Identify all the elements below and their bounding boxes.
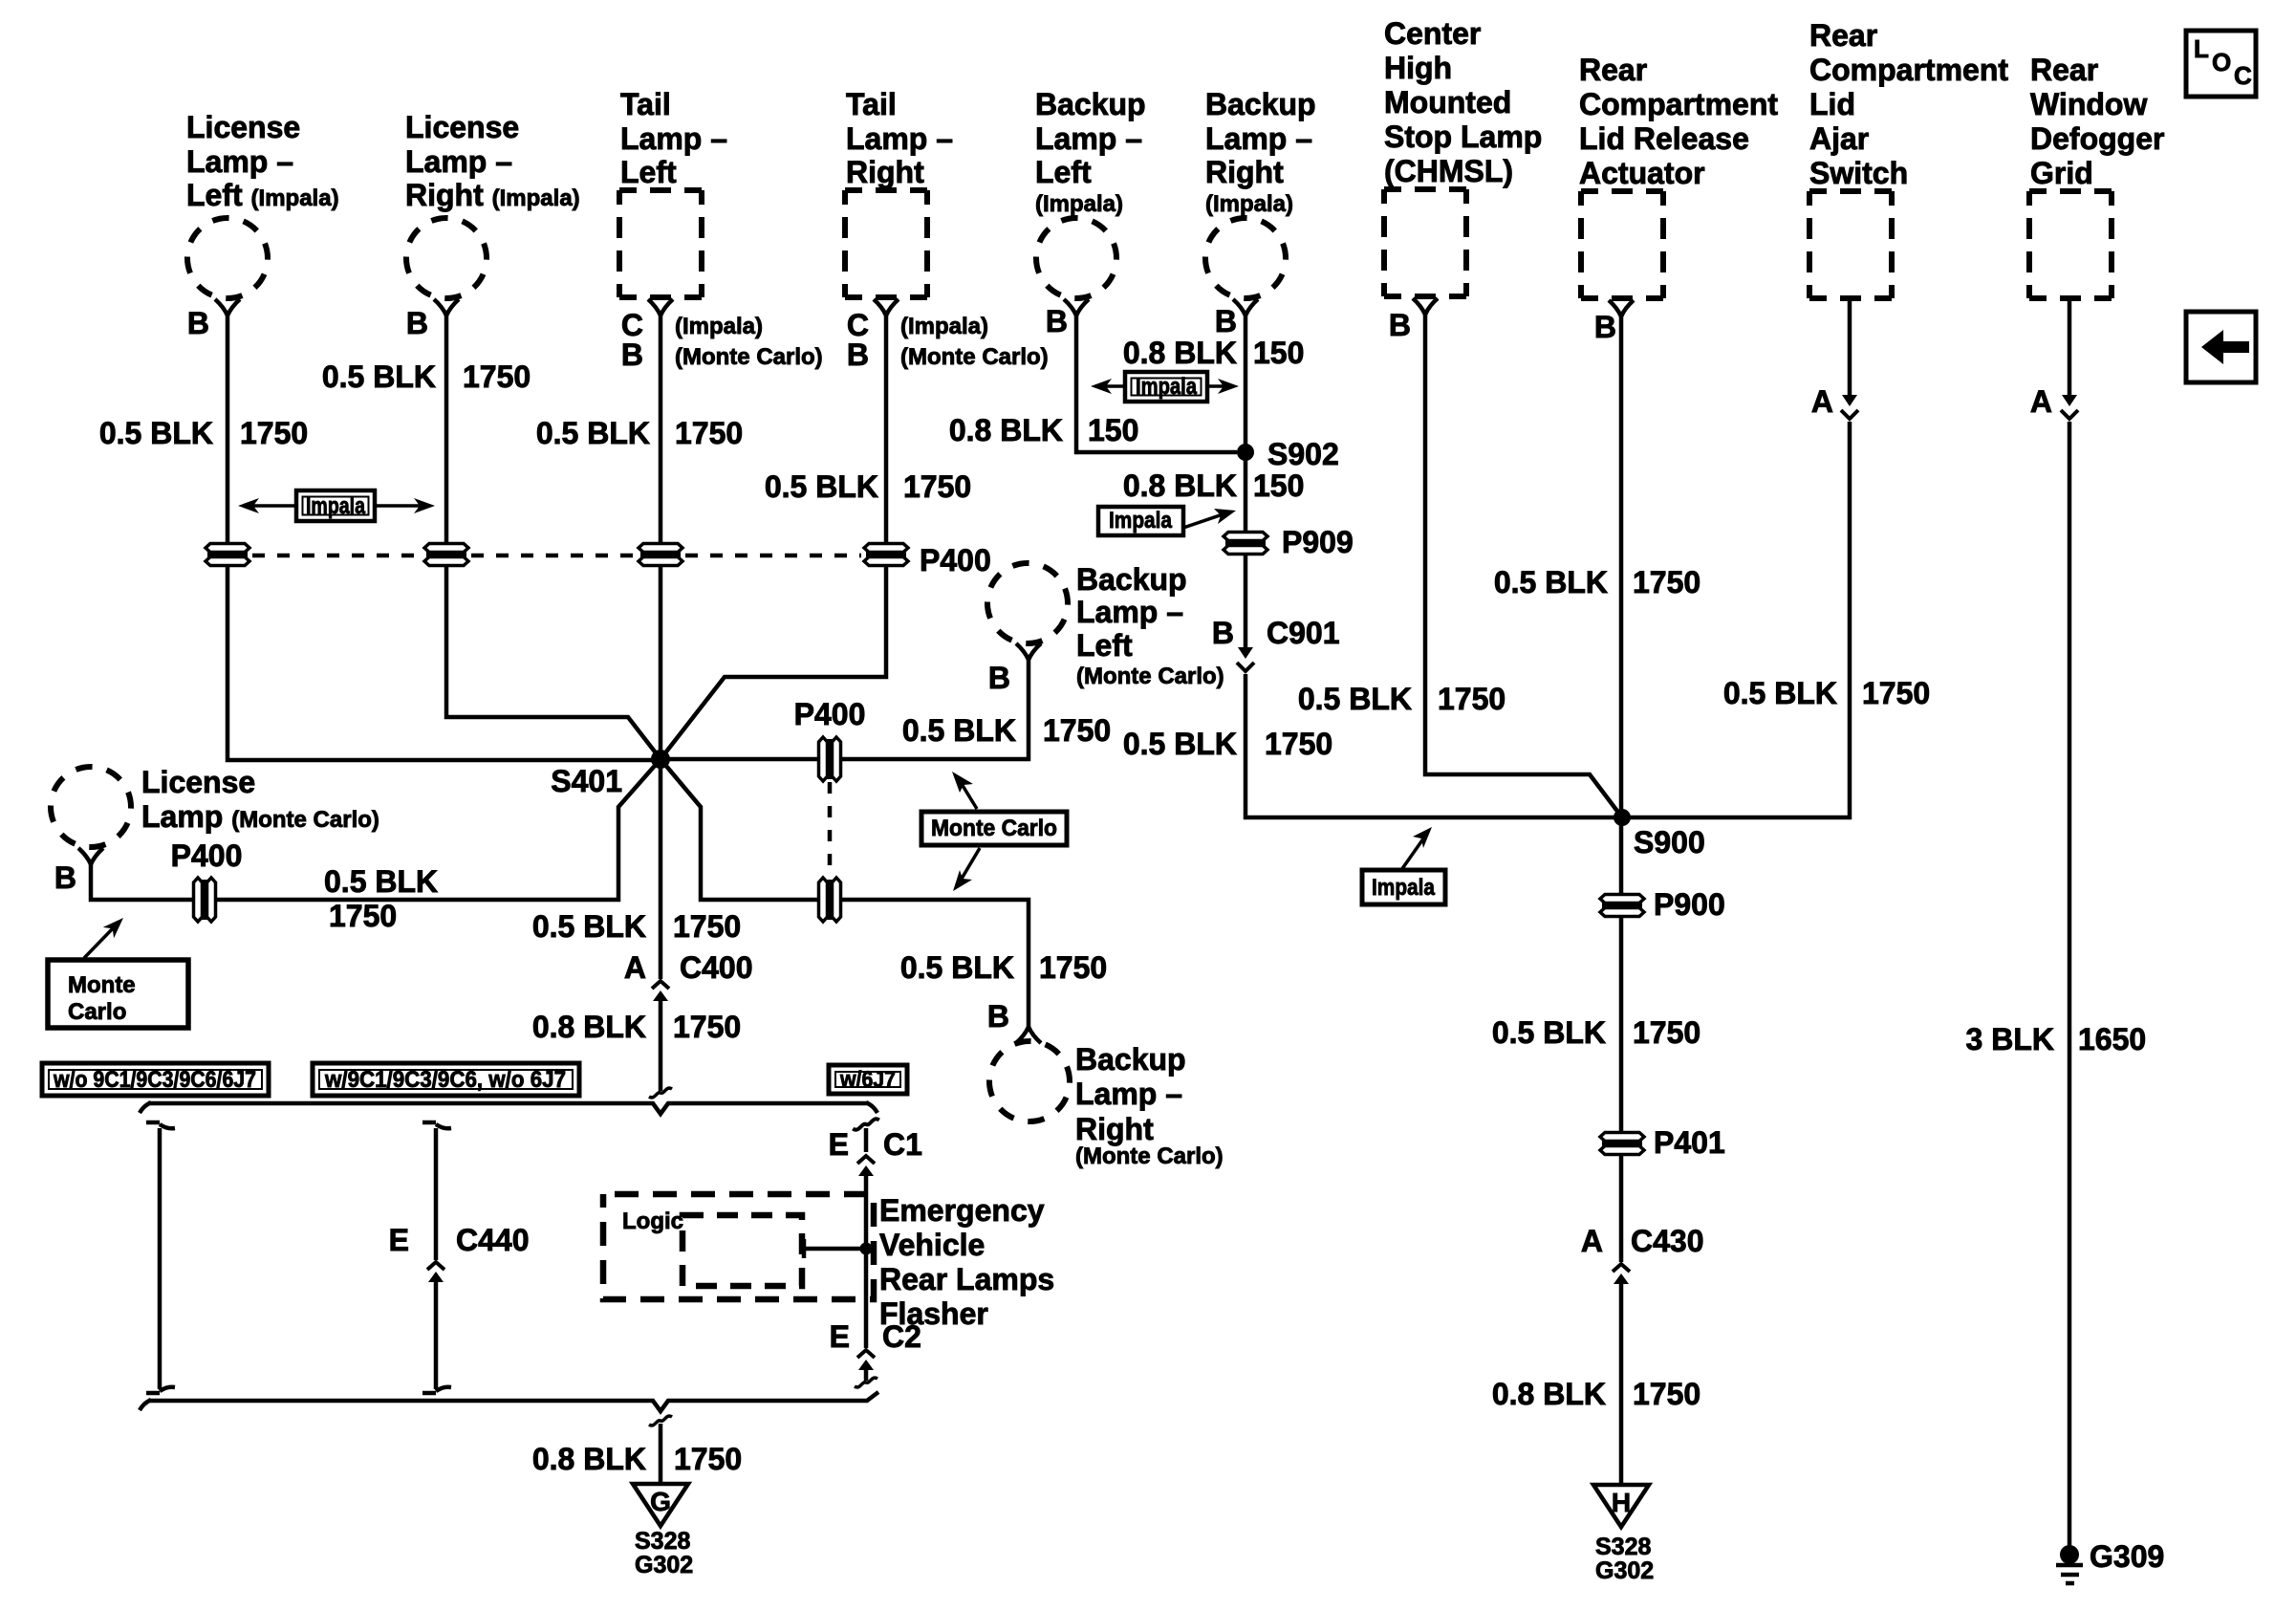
svg-text:E: E (389, 1223, 409, 1257)
svg-text:Right: Right (1205, 155, 1284, 189)
svg-text:Left: Left (620, 155, 677, 189)
dashed pass-through line P400 (252, 554, 861, 558)
svg-text:0.8 BLK: 0.8 BLK (949, 413, 1063, 447)
svg-text:Lamp –: Lamp – (1075, 1077, 1182, 1111)
connector C2 inline symbol (857, 1350, 875, 1370)
svg-text:C430: C430 (1631, 1224, 1704, 1258)
svg-text:Compartment: Compartment (1579, 87, 1778, 121)
wire break squiggle above option span (649, 1088, 672, 1098)
wire Lid Ajar Switch to S900 0.5 BLK 1750 (1626, 422, 1850, 817)
svg-text:Lamp –: Lamp – (186, 144, 293, 179)
svg-text:1750: 1750 (240, 416, 308, 450)
svg-text:1750: 1750 (675, 416, 743, 450)
label 0.5 BLK 1750 (License Right) (322, 359, 531, 394)
svg-text:Vehicle: Vehicle (879, 1228, 985, 1262)
svg-text:B: B (1046, 304, 1068, 338)
svg-text:Stop Lamp: Stop Lamp (1384, 120, 1542, 154)
svg-text:0.5 BLK: 0.5 BLK (99, 416, 213, 450)
svg-text:Lamp –: Lamp – (1076, 595, 1183, 629)
svg-text:0.5 BLK: 0.5 BLK (765, 469, 878, 504)
grommet P401 (1600, 1133, 1644, 1155)
svg-text:0.5 BLK: 0.5 BLK (1298, 682, 1412, 716)
svg-text:B: B (1389, 308, 1411, 342)
label 0.5 BLK 1750 (Tail Left) (536, 416, 743, 450)
label 0.8 BLK 1750 (C430 lower) (1492, 1377, 1700, 1411)
grommet P909 (1224, 533, 1267, 555)
label 0.5 BLK 1750 (Ajar) (1723, 676, 1930, 710)
svg-text:B: B (187, 306, 209, 340)
svg-text:Backup: Backup (1205, 87, 1316, 121)
grommet P400 (lower Monte Carlo run) (819, 878, 841, 922)
svg-text:Backup: Backup (1075, 1042, 1186, 1077)
dashed link between P400 grommets (828, 782, 833, 877)
svg-text:1750: 1750 (1265, 727, 1332, 761)
label 0.5 BLK 1750 (CHMSL) (1298, 682, 1505, 716)
svg-text:Rear: Rear (1809, 18, 1877, 53)
svg-text:0.5 BLK: 0.5 BLK (900, 950, 1014, 985)
svg-text:Carlo: Carlo (68, 999, 126, 1025)
svg-text:(Monte Carlo): (Monte Carlo) (675, 344, 823, 370)
svg-text:0.8 BLK: 0.8 BLK (532, 1010, 646, 1044)
svg-text:0.8 BLK: 0.8 BLK (1492, 1377, 1606, 1411)
connector C1 inline symbol (857, 1156, 875, 1176)
svg-text:C1: C1 (883, 1127, 922, 1162)
svg-text:Lamp –: Lamp – (1205, 121, 1312, 156)
svg-text:Rear: Rear (1579, 53, 1647, 87)
svg-text:S328: S328 (635, 1528, 690, 1555)
wire Defogger Grid to G309 3 BLK 1650 (2068, 422, 2072, 1549)
svg-text:Lamp –: Lamp – (846, 121, 953, 156)
svg-text:150: 150 (1088, 413, 1138, 447)
pin A marker on Defogger wire (2061, 395, 2078, 419)
label 0.5 BLK / 1750 (Monte Carlo license) (324, 864, 438, 933)
svg-text:0.5 BLK: 0.5 BLK (324, 864, 438, 899)
svg-text:B: B (1215, 304, 1237, 338)
option box w/9C1/9C3/9C6, w/o 6J7 (313, 1063, 579, 1096)
component Backup Lamp Left (Impala) (1024, 87, 1146, 316)
svg-text:Defogger: Defogger (2030, 121, 2164, 156)
connector C430 inline symbol (1613, 1264, 1630, 1284)
option span line upper (140, 1102, 877, 1114)
wire S401 lower-right to Backup Lamp Right (Monte Carlo) (661, 759, 1029, 1027)
LOC legend box (2186, 31, 2256, 97)
svg-text:O: O (2212, 48, 2231, 76)
option box w/6J7 (829, 1065, 907, 1094)
svg-text:Tail: Tail (846, 87, 897, 121)
svg-text:Impala: Impala (1372, 875, 1436, 901)
label Emergency Vehicle Rear Lamps Flasher (879, 1193, 1054, 1331)
svg-text:Right: Right (1075, 1112, 1154, 1146)
svg-text:Lid Release: Lid Release (1579, 121, 1749, 156)
svg-text:w/o 9C1/9C3/9C6/6J7: w/o 9C1/9C3/9C6/6J7 (53, 1067, 256, 1093)
svg-text:Compartment: Compartment (1809, 53, 2008, 87)
svg-text:B: B (406, 306, 428, 340)
svg-text:(Impala): (Impala) (675, 314, 763, 339)
Impala option box with arrow (S900) (1362, 827, 1445, 904)
grommet P400 (upper Monte Carlo run) (819, 737, 841, 781)
svg-text:1750: 1750 (673, 1010, 741, 1044)
svg-text:E: E (829, 1127, 849, 1162)
svg-text:B: B (847, 337, 869, 372)
svg-text:(Monte Carlo): (Monte Carlo) (900, 344, 1049, 370)
svg-text:S900: S900 (1634, 825, 1705, 860)
svg-text:w/6J7: w/6J7 (839, 1067, 896, 1093)
svg-text:1750: 1750 (1862, 676, 1930, 710)
grommet P400 on License Right wire (424, 544, 468, 566)
svg-text:Lid: Lid (1809, 87, 1855, 121)
note (Impala) (Monte Carlo) at Tail Lamp Left (675, 314, 823, 370)
ground H (1593, 1485, 1649, 1527)
component License Lamp Left (Impala) (175, 110, 339, 316)
svg-text:Lamp –: Lamp – (620, 121, 727, 156)
svg-text:B: B (54, 860, 76, 895)
svg-text:A: A (1811, 384, 1833, 419)
svg-text:Rear: Rear (2030, 53, 2098, 87)
svg-text:Window: Window (2030, 87, 2147, 121)
wire Backup Lamp Left to S902 0.8 BLK 150 (1076, 316, 1237, 452)
svg-text:0.5 BLK: 0.5 BLK (902, 713, 1016, 748)
svg-text:B: B (1212, 616, 1234, 650)
svg-text:150: 150 (1253, 468, 1304, 503)
svg-text:Monte: Monte (68, 972, 136, 998)
option branch w/o 9C1/9C3/9C6/6J7 (plain wire) (146, 1122, 175, 1393)
label 3 BLK 1650 (Defogger) (1966, 1022, 2147, 1056)
svg-text:Mounted: Mounted (1384, 85, 1511, 120)
wire C440 lower (422, 1282, 451, 1393)
svg-text:B: B (1594, 310, 1616, 344)
component Center High Mounted Stop Lamp (CHMSL) (1384, 16, 1542, 315)
Logic inner dashed box (682, 1215, 802, 1286)
svg-text:B: B (987, 999, 1009, 1034)
svg-text:A: A (1581, 1224, 1603, 1258)
svg-text:Impala: Impala (1109, 508, 1173, 533)
svg-text:Backup: Backup (1076, 562, 1187, 597)
component Tail Lamp Right (845, 87, 953, 316)
label 0.5 BLK 1750 (License Left) (99, 416, 308, 450)
svg-text:License: License (141, 765, 255, 799)
svg-text:1750: 1750 (674, 1442, 742, 1476)
label 0.5 BLK 1750 (C901 lower) (1123, 727, 1332, 761)
wire Lid Ajar Switch upper segment (1848, 298, 1852, 395)
grommet P400 on Tail Right wire (864, 544, 908, 566)
svg-text:(Monte Carlo): (Monte Carlo) (1075, 1143, 1224, 1169)
splice S900 (1614, 809, 1631, 826)
svg-text:1750: 1750 (1633, 565, 1700, 599)
svg-text:C: C (2234, 61, 2252, 90)
svg-text:0.5 BLK: 0.5 BLK (532, 909, 646, 944)
Emergency Vehicle Rear Lamps Flasher outer dashed box (603, 1194, 874, 1299)
svg-text:Left: Left (1035, 155, 1092, 189)
label 0.8 BLK 1750 (C400 lower) (532, 1010, 741, 1044)
grommet P400 on License Left wire (206, 544, 249, 566)
svg-text:L: L (2194, 34, 2209, 63)
svg-text:Lamp –: Lamp – (405, 144, 512, 179)
svg-text:B: B (621, 337, 643, 372)
svg-text:Grid: Grid (2030, 156, 2093, 190)
svg-text:Left: Left (1076, 628, 1133, 663)
svg-text:0.5 BLK: 0.5 BLK (1494, 565, 1608, 599)
svg-text:(Monte Carlo): (Monte Carlo) (1076, 664, 1224, 689)
svg-text:1750: 1750 (1633, 1377, 1700, 1411)
svg-text:0.5 BLK: 0.5 BLK (322, 359, 436, 394)
label 0.5 BLK 1750 (Backup Right MC drop) (900, 950, 1107, 985)
svg-text:Logic: Logic (622, 1208, 683, 1234)
label 0.5 BLK 1750 (Backup Left MC drop) (902, 713, 1111, 748)
component License Lamp (Monte Carlo) (38, 754, 379, 864)
component Rear Window Defogger Grid (2029, 53, 2164, 298)
wire break squiggle above ground G (649, 1416, 672, 1426)
svg-text:Rear Lamps: Rear Lamps (879, 1262, 1054, 1296)
wire License Lamp Right to S401 0.5 BLK 1750 (446, 316, 661, 759)
label 0.8 BLK 1750 (ground G wire) (532, 1442, 742, 1476)
label 0.5 BLK 1750 (S900 lower) (1492, 1015, 1700, 1050)
wire License Lamp Left to S401 0.5 BLK 1750 (227, 316, 658, 760)
component Backup Lamp Left (Monte Carlo) (975, 551, 1224, 689)
svg-text:Center: Center (1384, 16, 1481, 51)
svg-text:(CHMSL): (CHMSL) (1384, 154, 1513, 188)
svg-text:1750: 1750 (463, 359, 531, 394)
back-arrow legend box (2186, 312, 2256, 382)
svg-text:1750: 1750 (673, 909, 741, 944)
wire Lid Release Actuator through S900 to C430 (1619, 316, 1624, 1262)
svg-text:3 BLK: 3 BLK (1966, 1022, 2054, 1056)
svg-text:Actuator: Actuator (1579, 156, 1705, 190)
svg-text:Impala: Impala (306, 493, 366, 519)
svg-text:Ajar: Ajar (1809, 121, 1869, 156)
svg-text:H: H (1612, 1488, 1631, 1517)
splice S902 (1237, 444, 1254, 461)
option branch w/6J7 wire upper (853, 1119, 879, 1152)
grommet P400 (Monte Carlo license) (194, 878, 216, 922)
Impala option box with arrow (P909) (1098, 507, 1236, 535)
svg-text:Right: Right (846, 155, 924, 189)
option span line lower (140, 1392, 878, 1411)
wire CHMSL to S900 0.5 BLK 1750 (1425, 315, 1622, 817)
label 0.5 BLK 1750 (S401 to C400) (532, 909, 741, 944)
svg-text:P401: P401 (1654, 1125, 1725, 1160)
label 0.5 BLK 1750 (Actuator upper) (1494, 565, 1700, 599)
junction node on flasher wire (860, 1243, 873, 1255)
svg-text:1750: 1750 (903, 469, 971, 504)
wire Logic box to flasher wire (804, 1247, 866, 1252)
label 0.5 BLK 1750 (Tail Right) (765, 469, 971, 504)
component Rear Compartment Lid Ajar Switch (1809, 18, 2008, 298)
wire C1 to C2 through flasher (864, 1176, 869, 1348)
wire Backup Lamp Right to C901 0.8 BLK 150 (1244, 316, 1248, 647)
wire C2 lower with break (855, 1370, 877, 1387)
svg-text:G302: G302 (635, 1552, 693, 1578)
svg-text:0.5 BLK: 0.5 BLK (1723, 676, 1837, 710)
svg-text:G302: G302 (1595, 1557, 1654, 1584)
svg-text:B: B (988, 661, 1010, 695)
wire C901 to S900 0.5 BLK 1750 (1245, 674, 1618, 817)
svg-text:G: G (650, 1487, 671, 1516)
Monte Carlo option box with arrow (left) (48, 918, 188, 1028)
svg-text:(Impala): (Impala) (900, 314, 988, 339)
Impala option box with double arrow (license lamps) (238, 490, 435, 521)
svg-text:C901: C901 (1267, 616, 1340, 650)
wire to ground G 0.8 BLK 1750 (659, 1424, 663, 1484)
label 0.8 BLK 150 (Backup Left) (949, 413, 1139, 447)
component License Lamp Right (Impala) (394, 110, 580, 316)
svg-text:Switch: Switch (1809, 156, 1908, 190)
option branch w/9C1/9C3/9C6 w/o 6J7 wire (422, 1122, 451, 1260)
svg-text:Impala: Impala (1136, 374, 1198, 400)
svg-text:Backup: Backup (1035, 87, 1146, 121)
svg-text:P400: P400 (171, 838, 243, 873)
svg-text:(Impala): (Impala) (1205, 191, 1293, 217)
splice S401 (651, 750, 670, 769)
component Backup Lamp Right (Monte Carlo) (977, 1027, 1224, 1169)
grommet P900 (1600, 895, 1644, 917)
svg-text:0.8 BLK: 0.8 BLK (532, 1442, 646, 1476)
svg-text:0.5 BLK: 0.5 BLK (1123, 727, 1237, 761)
svg-text:0.5 BLK: 0.5 BLK (536, 416, 650, 450)
svg-text:P400: P400 (920, 543, 991, 577)
svg-text:G309: G309 (2090, 1539, 2164, 1574)
svg-text:Lamp –: Lamp – (1035, 121, 1142, 156)
svg-text:1750: 1750 (1633, 1015, 1700, 1050)
svg-text:Tail: Tail (620, 87, 671, 121)
svg-text:1750: 1750 (1039, 950, 1107, 985)
wire Defogger Grid upper segment (2068, 298, 2072, 395)
svg-text:License: License (186, 110, 300, 144)
connector C901 inline symbol (1237, 647, 1254, 671)
svg-text:1750: 1750 (1438, 682, 1505, 716)
svg-text:S401: S401 (551, 764, 622, 798)
component Backup Lamp Right (Impala) (1193, 87, 1316, 316)
ground G (633, 1484, 688, 1526)
svg-text:P400: P400 (794, 697, 866, 731)
wire Tail Lamp Left to S401 and C400 0.5 BLK 1750 (659, 316, 663, 979)
svg-text:E: E (830, 1319, 850, 1354)
component Tail Lamp Left (619, 87, 727, 316)
svg-text:High: High (1384, 51, 1452, 85)
svg-text:C400: C400 (680, 950, 753, 985)
svg-text:150: 150 (1253, 336, 1304, 370)
wire License Lamp (Monte Carlo) to S401 0.5 BLK 1750 (91, 759, 661, 900)
svg-text:A: A (2030, 384, 2052, 419)
component Rear Compartment Lid Release Actuator (1579, 53, 1778, 316)
connector C400 inline symbol (652, 981, 669, 1001)
Monte Carlo option box with double arrow (middle) (921, 772, 1067, 891)
svg-text:0.8 BLK: 0.8 BLK (1123, 468, 1237, 503)
svg-text:Emergency: Emergency (879, 1193, 1045, 1228)
svg-text:S902: S902 (1267, 437, 1339, 471)
svg-text:S328: S328 (1595, 1534, 1651, 1560)
svg-text:C2: C2 (882, 1319, 921, 1354)
label 0.8 BLK 150 (Backup Right upper) (1123, 336, 1305, 370)
label 0.8 BLK 150 (below S902) (1123, 468, 1305, 503)
svg-text:1750: 1750 (1043, 713, 1111, 748)
wire C430 to ground H 0.8 BLK 1750 (1619, 1284, 1624, 1485)
svg-text:(Impala): (Impala) (1035, 191, 1123, 217)
svg-text:1750: 1750 (329, 899, 397, 933)
svg-text:P900: P900 (1654, 887, 1725, 922)
pin A marker on Lid Ajar Switch wire (1841, 395, 1858, 419)
wire Tail Lamp Right to S401 0.5 BLK 1750 (661, 316, 886, 759)
svg-text:0.5 BLK: 0.5 BLK (1492, 1015, 1606, 1050)
svg-text:0.8 BLK: 0.8 BLK (1123, 336, 1237, 370)
svg-text:C440: C440 (456, 1223, 530, 1257)
Impala option box with double arrow (backup lamps) (1091, 372, 1239, 402)
label S328 G302 (left ground) (635, 1528, 693, 1578)
svg-text:Monte Carlo: Monte Carlo (931, 816, 1057, 841)
svg-text:A: A (624, 950, 646, 985)
wire S401 to Backup Lamp Left (Monte Carlo) (661, 660, 1029, 759)
svg-text:License: License (405, 110, 519, 144)
svg-text:w/9C1/9C3/9C6, w/o 6J7: w/9C1/9C3/9C6, w/o 6J7 (324, 1067, 566, 1093)
option box w/o 9C1/9C3/9C6/6J7 (42, 1063, 269, 1096)
grommet P400 on Tail Left wire (639, 544, 682, 566)
ground G309 (2056, 1545, 2083, 1583)
svg-text:1650: 1650 (2078, 1022, 2146, 1056)
note (Impala) (Monte Carlo) at Tail Lamp Right (900, 314, 1049, 370)
label S328 G302 (right ground) (1595, 1534, 1654, 1584)
wire C400 lower 0.8 BLK 1750 (659, 1001, 663, 1091)
svg-text:P909: P909 (1282, 525, 1354, 559)
connector C440 inline symbol (427, 1262, 444, 1282)
